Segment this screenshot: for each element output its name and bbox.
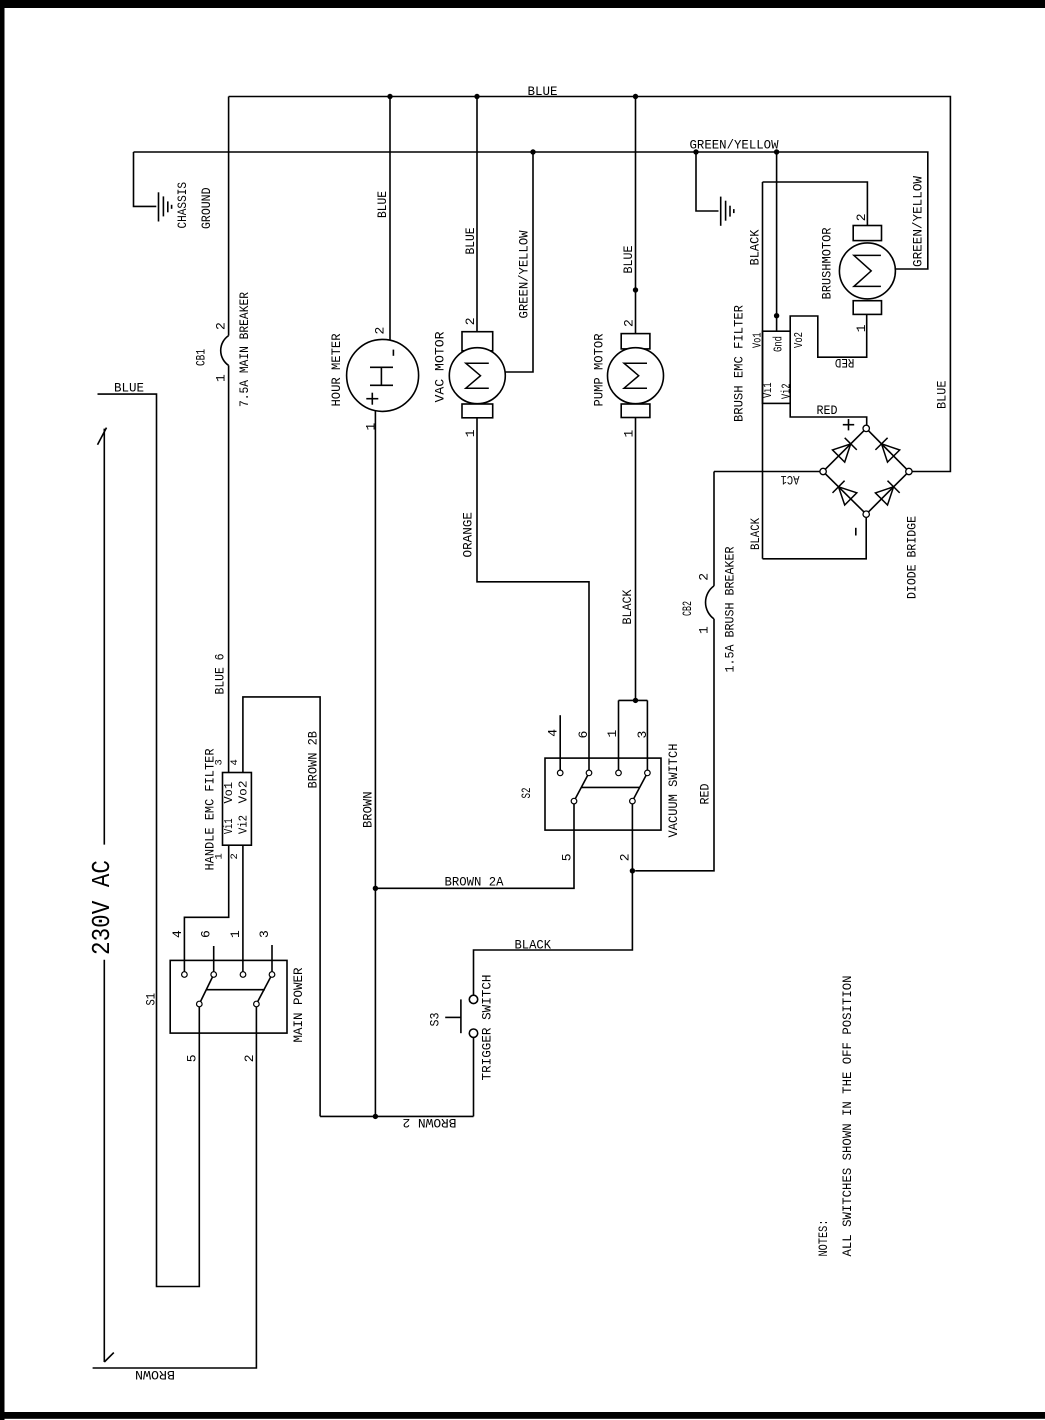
- svg-text:1: 1: [463, 429, 478, 437]
- svg-text:1: 1: [854, 324, 869, 332]
- svg-text:4: 4: [170, 930, 185, 938]
- svg-text:CB1: CB1: [195, 349, 209, 366]
- svg-text:5: 5: [560, 853, 575, 861]
- svg-text:S1: S1: [145, 993, 159, 1006]
- svg-text:2: 2: [214, 322, 229, 330]
- svg-text:BLACK: BLACK: [621, 589, 635, 624]
- svg-text:3: 3: [214, 759, 226, 765]
- svg-text:1: 1: [605, 730, 620, 738]
- svg-text:CB2: CB2: [681, 601, 695, 616]
- svg-text:BLUE 6: BLUE 6: [214, 654, 228, 695]
- svg-text:4: 4: [546, 729, 561, 737]
- svg-text:BROWN 2: BROWN 2: [403, 1115, 457, 1129]
- svg-text:2: 2: [373, 327, 388, 335]
- svg-text:GROUND: GROUND: [200, 188, 214, 230]
- svg-text:2: 2: [854, 213, 869, 221]
- svg-text:TRIGGER SWITCH: TRIGGER SWITCH: [481, 975, 495, 1081]
- svg-text:RED: RED: [817, 404, 838, 418]
- svg-text:BROWN: BROWN: [135, 1367, 175, 1381]
- svg-text:AC1: AC1: [781, 472, 800, 486]
- svg-text:1.5A BRUSH BREAKER: 1.5A BRUSH BREAKER: [723, 546, 737, 672]
- svg-text:Vi1: Vi1: [222, 819, 236, 835]
- svg-text:GREEN/YELLOW: GREEN/YELLOW: [912, 175, 926, 267]
- svg-text:BLACK: BLACK: [749, 229, 763, 265]
- svg-text:BLUE: BLUE: [114, 382, 144, 396]
- svg-text:2: 2: [229, 853, 241, 859]
- svg-text:HOUR METER: HOUR METER: [330, 333, 344, 406]
- svg-text:DIODE BRIDGE: DIODE BRIDGE: [906, 516, 920, 599]
- svg-text:Gnd: Gnd: [772, 336, 786, 352]
- svg-text:6: 6: [576, 731, 591, 739]
- svg-text:GREEN/YELLOW: GREEN/YELLOW: [518, 230, 532, 318]
- svg-text:S2: S2: [520, 788, 534, 799]
- svg-text:Vo1: Vo1: [222, 782, 236, 804]
- svg-text:1: 1: [214, 853, 226, 859]
- svg-text:4: 4: [229, 759, 241, 765]
- svg-text:PUMP MOTOR: PUMP MOTOR: [593, 333, 607, 406]
- svg-text:BLUE: BLUE: [622, 246, 636, 274]
- svg-text:BRUSH EMC FILTER: BRUSH EMC FILTER: [733, 305, 747, 422]
- svg-text:5: 5: [185, 1054, 200, 1062]
- svg-text:2: 2: [242, 1054, 257, 1062]
- svg-text:CHASSIS: CHASSIS: [176, 182, 190, 229]
- svg-text:2: 2: [697, 573, 712, 581]
- svg-text:BLUE: BLUE: [528, 85, 558, 99]
- svg-text:Vo2: Vo2: [792, 332, 806, 348]
- svg-text:MAIN POWER: MAIN POWER: [292, 967, 306, 1042]
- svg-text:ALL SWITCHES SHOWN IN THE OFF: ALL SWITCHES SHOWN IN THE OFF POSITION: [841, 976, 855, 1257]
- svg-text:Vi2: Vi2: [780, 384, 794, 400]
- svg-text:3: 3: [257, 930, 272, 938]
- svg-text:RED: RED: [835, 355, 855, 369]
- svg-text:BLUE: BLUE: [464, 228, 478, 255]
- svg-text:BLACK: BLACK: [749, 518, 763, 550]
- svg-text:BROWN 2B: BROWN 2B: [307, 731, 321, 789]
- svg-text:2: 2: [463, 317, 478, 325]
- svg-text:VACUUM SWITCH: VACUUM SWITCH: [667, 744, 681, 838]
- svg-text:Vo1: Vo1: [750, 333, 764, 349]
- svg-text:6: 6: [199, 930, 214, 938]
- svg-text:1: 1: [364, 423, 379, 431]
- svg-text:Vo2: Vo2: [237, 781, 251, 804]
- svg-text:2: 2: [622, 319, 637, 327]
- svg-text:GREEN/YELLOW: GREEN/YELLOW: [690, 139, 779, 153]
- svg-text:2: 2: [618, 853, 633, 861]
- svg-text:Vi1: Vi1: [761, 383, 775, 399]
- svg-text:S3: S3: [429, 1013, 443, 1027]
- svg-text:7.5A MAIN BREAKER: 7.5A MAIN BREAKER: [238, 292, 252, 407]
- svg-text:BLACK: BLACK: [515, 939, 552, 953]
- svg-text:1: 1: [214, 374, 229, 382]
- svg-text:ORANGE: ORANGE: [462, 512, 476, 558]
- svg-text:BROWN 2A: BROWN 2A: [445, 876, 504, 890]
- svg-text:1: 1: [622, 430, 637, 438]
- svg-text:BLUE: BLUE: [936, 381, 950, 410]
- svg-text:Vi2: Vi2: [237, 815, 251, 834]
- svg-text:230V AC: 230V AC: [87, 860, 117, 955]
- svg-text:BRUSHMOTOR: BRUSHMOTOR: [821, 227, 835, 299]
- svg-text:BROWN: BROWN: [362, 792, 376, 829]
- svg-text:VAC MOTOR: VAC MOTOR: [434, 331, 448, 403]
- svg-text:1: 1: [228, 930, 243, 938]
- svg-text:1: 1: [697, 626, 712, 634]
- svg-text:BLUE: BLUE: [376, 191, 390, 218]
- svg-text:3: 3: [635, 731, 650, 739]
- svg-text:NOTES:: NOTES:: [817, 1220, 831, 1257]
- svg-text:RED: RED: [699, 784, 713, 805]
